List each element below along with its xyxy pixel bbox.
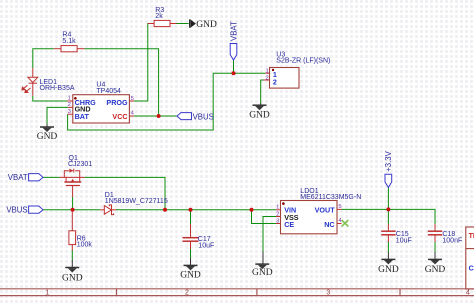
svg-text:100k: 100k — [77, 242, 93, 249]
diode D1 1N5819W (schottky) — [100, 192, 168, 215]
ground for C15 — [378, 252, 399, 275]
wire — [68, 73, 266, 130]
capacitor C15 — [381, 224, 412, 245]
svg-text:VOUT: VOUT — [315, 206, 336, 215]
svg-text:GND: GND — [196, 20, 217, 30]
ground for C18 — [425, 252, 446, 275]
wire — [342, 209, 436, 224]
wire — [233, 60, 235, 73]
svg-text:1: 1 — [276, 205, 279, 211]
svg-text:BAT: BAT — [75, 112, 90, 121]
svg-text:5: 5 — [338, 204, 341, 210]
wire — [387, 187, 389, 209]
net flag VBAT (left input) — [8, 173, 43, 182]
svg-text:VBUS: VBUS — [6, 206, 27, 215]
svg-text:1: 1 — [45, 290, 49, 297]
svg-text:+3.3V: +3.3V — [384, 150, 393, 171]
wire — [190, 247, 192, 258]
resistor R3 — [148, 7, 177, 27]
svg-text:100nF: 100nF — [442, 238, 462, 245]
svg-text:VBAT: VBAT — [8, 173, 28, 182]
svg-text:10uF: 10uF — [198, 242, 214, 249]
svg-text:2: 2 — [68, 102, 71, 108]
svg-text:GND: GND — [249, 111, 270, 121]
wire — [33, 96, 68, 101]
svg-text:CE: CE — [284, 220, 294, 229]
net flag VBUS (left input) — [6, 206, 43, 215]
no-connect X on LDO1 pin 4 — [342, 220, 349, 226]
ground for U4 pin 2 — [37, 124, 58, 142]
svg-text:TP4054: TP4054 — [96, 88, 121, 95]
wire — [71, 250, 73, 261]
svg-text:ORH-B35A: ORH-B35A — [40, 85, 75, 92]
svg-text:3: 3 — [326, 290, 330, 297]
ground for R6 — [62, 260, 83, 284]
ground (sideways) for R3 — [190, 19, 217, 30]
capacitor C18 — [428, 224, 462, 245]
LED LED1 — [22, 68, 75, 96]
wire — [116, 209, 276, 211]
svg-text:2: 2 — [265, 75, 268, 81]
svg-text:4: 4 — [466, 290, 470, 297]
wire — [252, 210, 277, 224]
connector U3 S2B-ZR — [264, 51, 331, 88]
svg-text:1: 1 — [265, 69, 268, 75]
junction node (VBAT / U3) — [232, 71, 236, 75]
junction node (C17 / rail) — [189, 208, 193, 212]
wire — [190, 210, 192, 226]
wire — [176, 23, 189, 25]
resistor R4 — [54, 32, 85, 52]
ground for LDO1 VSS — [252, 252, 273, 278]
wire — [387, 241, 389, 252]
IC U4 TP4054 — [67, 82, 134, 123]
wire — [261, 80, 264, 103]
partial component at right edge — [466, 227, 474, 289]
wire — [47, 107, 68, 124]
svg-text:CJ2301: CJ2301 — [68, 161, 92, 168]
svg-text:2: 2 — [276, 211, 279, 217]
svg-text:GND: GND — [252, 268, 273, 278]
svg-text:5: 5 — [131, 96, 134, 102]
svg-text:C: C — [469, 264, 474, 273]
svg-text:GND: GND — [37, 132, 58, 142]
net flag +3.3V (vertical) — [384, 150, 393, 187]
svg-text:2: 2 — [185, 290, 189, 297]
svg-text:GND: GND — [425, 265, 446, 275]
svg-text:5.1k: 5.1k — [62, 38, 76, 45]
wire — [85, 49, 159, 116]
svg-text:2k: 2k — [155, 13, 163, 20]
wire — [72, 197, 74, 210]
wire — [434, 241, 436, 252]
wire — [134, 115, 177, 117]
net flag VBUS (at U4 VCC) — [177, 112, 214, 121]
wire — [43, 176, 60, 178]
capacitor C17 — [183, 224, 215, 249]
svg-text:1: 1 — [68, 96, 71, 102]
svg-text:PROG: PROG — [106, 98, 128, 107]
wire — [33, 49, 54, 68]
junction node (R4 / VCC) — [157, 114, 161, 118]
junction node (Q1 gate / R6 / VBUS rail) — [71, 208, 75, 212]
svg-text:1N5819W_C727115: 1N5819W_C727115 — [105, 198, 168, 205]
wire — [387, 209, 389, 224]
wire — [134, 24, 149, 102]
wire — [263, 217, 276, 252]
svg-text:2: 2 — [273, 78, 277, 87]
svg-text:TP: TP — [469, 233, 474, 240]
svg-text:VCC: VCC — [112, 112, 127, 121]
svg-text:VBAT: VBAT — [229, 21, 238, 41]
svg-text:S2B-ZR (LF)(SN): S2B-ZR (LF)(SN) — [276, 58, 330, 65]
wire — [43, 209, 100, 211]
junction node (Q1 drain / rail) — [163, 208, 167, 212]
transistor Q1 CJ2301 (PMOS) — [60, 155, 93, 197]
svg-text:VBUS: VBUS — [193, 112, 214, 121]
ground for C17 — [180, 258, 201, 280]
svg-text:ME6211C33M5G-N: ME6211C33M5G-N — [300, 194, 361, 201]
net flag VBAT (vertical, top) — [229, 21, 238, 60]
svg-text:GND: GND — [180, 270, 201, 280]
svg-text:3: 3 — [276, 218, 279, 224]
svg-text:NC: NC — [324, 220, 334, 229]
resistor R6 — [69, 210, 92, 251]
svg-text:10uF: 10uF — [396, 238, 412, 245]
svg-text:GND: GND — [62, 274, 83, 284]
svg-text:GND: GND — [378, 265, 399, 275]
junction node (+3.3V / VOUT rail) — [386, 207, 390, 211]
ground for U3 pin 2 — [249, 103, 270, 121]
svg-text:3: 3 — [68, 109, 71, 115]
wire — [85, 177, 166, 209]
IC LDO1 ME6211C33M5G-N — [276, 188, 361, 234]
junction node (LDO VIN / CE) — [250, 208, 254, 212]
